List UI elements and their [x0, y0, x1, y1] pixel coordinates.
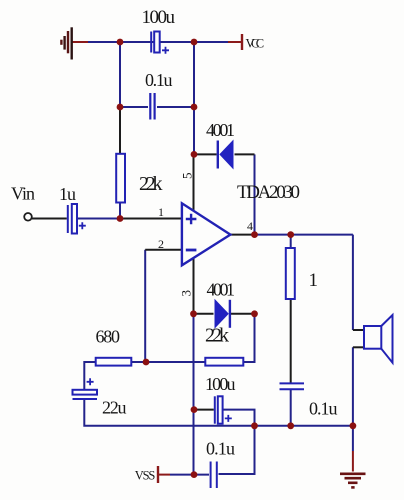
- svg-text:4: 4: [247, 219, 253, 233]
- svg-text:0.1u: 0.1u: [206, 439, 235, 459]
- svg-text:22k: 22k: [139, 173, 163, 195]
- svg-text:2: 2: [158, 237, 164, 251]
- svg-text:22u: 22u: [102, 398, 127, 418]
- svg-text:100u: 100u: [142, 7, 176, 28]
- svg-text:3: 3: [179, 290, 194, 297]
- svg-text:22k: 22k: [205, 325, 229, 347]
- svg-text:100u: 100u: [205, 374, 236, 394]
- svg-text:VCC: VCC: [246, 36, 265, 50]
- svg-text:4001: 4001: [207, 280, 236, 300]
- svg-text:4001: 4001: [206, 120, 235, 140]
- svg-text:0.1u: 0.1u: [145, 70, 173, 90]
- svg-text:5: 5: [180, 173, 195, 180]
- svg-text:Vin: Vin: [11, 184, 35, 204]
- svg-text:1: 1: [158, 205, 164, 219]
- svg-text:0.1u: 0.1u: [309, 399, 338, 419]
- svg-text:1: 1: [309, 270, 319, 291]
- svg-text:1u: 1u: [59, 184, 76, 204]
- svg-text:680: 680: [96, 327, 121, 347]
- svg-text:TDA2030: TDA2030: [237, 182, 300, 203]
- svg-text:VSS: VSS: [135, 469, 156, 483]
